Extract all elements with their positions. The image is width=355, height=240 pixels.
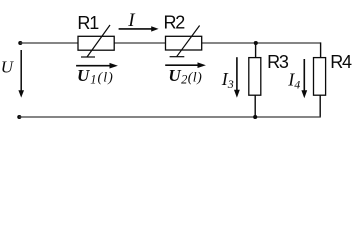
resistor R2 adjustment tick bbox=[170, 56, 185, 58]
wire stub R3 bottom bbox=[254, 95, 256, 117]
svg-text:R4: R4 bbox=[330, 52, 352, 72]
svg-text:U: U bbox=[1, 57, 15, 76]
resistor R2 adjustment diagonal bbox=[177, 26, 200, 57]
node junction bottom of R3 bbox=[253, 115, 257, 119]
svg-text:R1: R1 bbox=[77, 13, 99, 33]
wire stub R4 bottom bbox=[319, 95, 321, 117]
wire stub R3 top bbox=[255, 43, 257, 58]
wire top: R1 to R2 bbox=[114, 42, 165, 44]
resistor R4 body bbox=[314, 58, 326, 96]
node left-top terminal bbox=[18, 41, 22, 45]
current arrow I4 (pointing down) bbox=[301, 59, 307, 98]
resistor R3 body bbox=[249, 58, 261, 96]
resistor R1 adjustment tick bbox=[81, 56, 95, 58]
current arrow I (top, pointing right) bbox=[119, 26, 159, 31]
node left-bottom terminal bbox=[17, 115, 21, 119]
voltage arrow U2 (pointing right) bbox=[165, 62, 206, 68]
current arrow I3 (pointing down) bbox=[234, 57, 240, 97]
resistor R1 adjustment diagonal bbox=[87, 25, 110, 57]
resistor R2 body bbox=[166, 36, 202, 50]
wire top: terminal to R1 bbox=[20, 42, 78, 44]
node junction top of R3 bbox=[254, 41, 258, 45]
voltage arrow U (source, pointing down) bbox=[18, 50, 24, 98]
wire top: R2 to right corner bbox=[202, 42, 321, 44]
wire right vertical top corner to R4 bbox=[320, 42, 322, 57]
svg-text:R3: R3 bbox=[267, 52, 289, 72]
resistor R1 body bbox=[78, 36, 114, 50]
wire bottom bbox=[19, 116, 321, 118]
voltage arrow U1 (pointing right) bbox=[76, 63, 118, 69]
svg-text:R2: R2 bbox=[164, 13, 186, 33]
